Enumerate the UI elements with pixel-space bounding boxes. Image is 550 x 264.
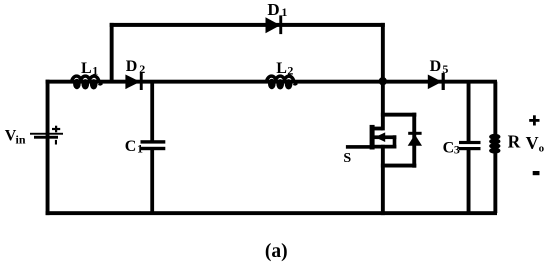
- wire loop top: [381, 113, 416, 117]
- output minus sign: [533, 171, 540, 175]
- mosfet body-source link vertical: [393, 135, 397, 148]
- body diode of switch: [408, 132, 421, 135]
- wire left riser: [110, 23, 114, 84]
- svg-text:D: D: [267, 0, 279, 19]
- svg-text:o: o: [539, 142, 545, 154]
- mosfet gate lead: [346, 145, 371, 149]
- mosfet S channel bar: [370, 125, 375, 150]
- wire Vin vertical: [46, 80, 50, 215]
- svg-text:in: in: [16, 132, 26, 146]
- svg-text:1: 1: [281, 5, 287, 19]
- wire C1 branch lower: [150, 150, 154, 213]
- svg-text:R: R: [508, 132, 521, 152]
- wire loop bottom: [381, 164, 416, 168]
- inductor L2: [266, 76, 296, 84]
- output plus sign: [529, 119, 539, 122]
- svg-text:3: 3: [454, 142, 460, 156]
- wire right riser: [381, 23, 385, 81]
- battery Vin: [30, 133, 63, 135]
- diode D1: [266, 17, 281, 33]
- svg-text:S: S: [343, 151, 351, 166]
- resistor R coil: [489, 134, 500, 140]
- inductor L1: [71, 76, 101, 84]
- mosfet body arrow line: [374, 135, 396, 139]
- node junction: [379, 77, 387, 85]
- svg-text:D: D: [430, 58, 442, 75]
- svg-text:L: L: [81, 60, 92, 77]
- diode D2: [125, 75, 140, 90]
- svg-text:D: D: [126, 58, 138, 75]
- svg-text:1: 1: [137, 141, 143, 155]
- wire switch drain vertical: [381, 81, 385, 130]
- wire C3 branch lower: [467, 150, 471, 213]
- mosfet arrowhead: [375, 132, 385, 142]
- battery minus tick: [55, 140, 57, 145]
- svg-text:2: 2: [139, 62, 145, 76]
- wire input rail: [46, 80, 385, 84]
- capacitor C1: [141, 140, 166, 143]
- wire R branch: [493, 82, 497, 214]
- svg-text:V: V: [526, 133, 539, 153]
- wire switch source vertical: [381, 145, 385, 215]
- svg-text:1: 1: [92, 64, 98, 78]
- battery plus sign: [52, 128, 60, 130]
- svg-text:L: L: [276, 60, 287, 77]
- wire body diode branch: [412, 113, 416, 168]
- wire C3 branch upper: [467, 82, 471, 142]
- svg-text:(a): (a): [265, 241, 288, 262]
- wire output rail: [383, 80, 497, 84]
- mosfet drain stub: [372, 127, 383, 131]
- svg-text:2: 2: [287, 64, 293, 78]
- mosfet source stub: [372, 145, 396, 149]
- wire C1 branch upper: [150, 82, 154, 141]
- svg-text:C: C: [125, 138, 137, 155]
- wire top rail: [110, 23, 385, 27]
- diode D5: [428, 75, 442, 90]
- capacitor C3: [459, 141, 481, 144]
- svg-text:5: 5: [442, 62, 448, 76]
- wire bottom rail: [46, 211, 497, 215]
- svg-text:C: C: [443, 139, 455, 156]
